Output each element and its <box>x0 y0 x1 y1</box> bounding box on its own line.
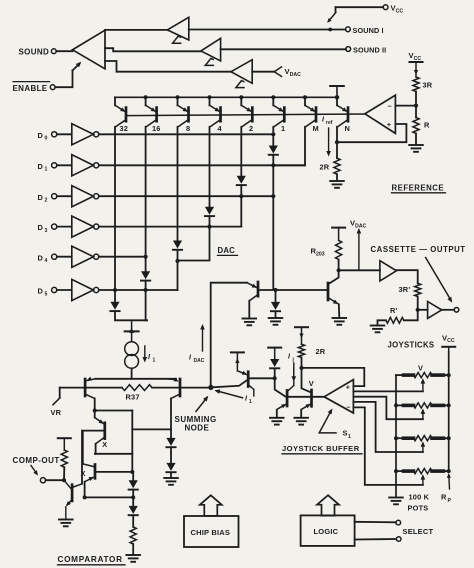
svg-text:2R: 2R <box>316 347 326 356</box>
node D3-diode4 <box>207 225 211 229</box>
svg-text:D: D <box>38 287 44 296</box>
terminal select1 <box>396 520 401 525</box>
svg-text:R: R <box>424 120 430 129</box>
label I1 source <box>148 354 156 364</box>
wire 16line to current source <box>125 322 139 342</box>
svg-text:X: X <box>102 440 107 449</box>
wire node to R <box>415 106 417 118</box>
resistor R-prime <box>386 317 404 323</box>
label JOYSTICK BUFFER <box>282 444 362 454</box>
svg-text:D: D <box>38 253 44 262</box>
wire sound input 1 <box>105 29 167 31</box>
diode joystick <box>270 359 279 378</box>
node rail-4 <box>208 95 212 99</box>
wire Q2 collector drop <box>240 127 242 176</box>
wire amp in2 pot1 <box>353 390 423 392</box>
wire pot rail right <box>448 352 450 471</box>
transistor QL mirror left <box>85 377 95 411</box>
wire diode290 to ground <box>275 311 277 317</box>
svg-text:DAC: DAC <box>218 246 236 255</box>
label SUMMING NODE <box>175 415 217 433</box>
transistor Q-idac mirror <box>247 282 258 318</box>
svg-text:VR: VR <box>51 408 62 417</box>
wire 2-diode to D2 <box>240 185 242 196</box>
ground below R <box>409 145 423 152</box>
wire 8-diode down <box>177 250 179 290</box>
wire 4 below D3 <box>178 227 210 261</box>
transistor Q-compout <box>64 431 82 519</box>
node comparator bus <box>83 495 136 499</box>
wire 2Rnode down <box>302 368 311 392</box>
terminal 2R-j T <box>295 327 308 344</box>
label 4 <box>218 124 223 133</box>
node D5-Q32 <box>113 288 148 292</box>
svg-text:2: 2 <box>249 124 253 133</box>
label VDAC top <box>285 67 302 78</box>
node cassette <box>416 308 420 312</box>
inverter D3 input buffer <box>38 216 99 237</box>
terminal SOUND I <box>346 27 351 32</box>
label JOYSTICKS <box>388 341 435 350</box>
ground below diode stack A <box>164 472 178 484</box>
potentiometer P4 (100K) <box>396 469 449 485</box>
node pot4 right <box>447 469 451 473</box>
wire DAC emitter rail <box>115 96 337 98</box>
label R203 <box>311 247 325 258</box>
label 2R joystick <box>316 347 326 356</box>
node QL collector <box>93 409 97 413</box>
diode stack B1 <box>129 472 138 490</box>
svg-text:CHIP BIAS: CHIP BIAS <box>191 528 231 537</box>
resistor R203 <box>336 240 342 259</box>
wire amp2 out <box>442 309 455 311</box>
wire B2 to resistor <box>132 515 134 527</box>
wire 1-diode to D1 <box>272 155 274 166</box>
wire node to amp2 <box>418 309 428 311</box>
svg-text:S: S <box>343 429 348 438</box>
svg-text:N: N <box>345 124 351 133</box>
label 2 <box>249 124 253 133</box>
resistor comp pullup <box>61 450 67 467</box>
node diode-j <box>273 376 277 380</box>
wire ENABLE <box>55 71 72 88</box>
label Vcc joystick <box>442 333 455 344</box>
potentiometer P1 (100K) <box>396 373 449 392</box>
label R37 <box>126 393 140 402</box>
svg-text:4: 4 <box>45 258 48 264</box>
Iref arrow <box>326 128 331 157</box>
transistor Q3j <box>301 390 312 417</box>
diode on 1 line <box>269 146 278 155</box>
svg-text:COMPARATOR: COMPARATOR <box>58 555 123 564</box>
wire comparator bus <box>85 496 134 498</box>
label Rp <box>441 493 452 504</box>
svg-text:NODE: NODE <box>185 423 210 432</box>
ground comparator <box>126 555 140 562</box>
node rail-M <box>303 95 307 99</box>
wire D3 row <box>99 226 242 228</box>
svg-text:5: 5 <box>45 291 48 297</box>
wire opamp plus feedback <box>337 124 406 142</box>
node rail-right P2 <box>447 403 451 407</box>
svg-text:1: 1 <box>249 399 252 405</box>
wire R203 to node <box>338 259 340 270</box>
transistor Q1 (binary weight 1) <box>273 97 285 127</box>
svg-text:SELECT: SELECT <box>403 527 434 536</box>
wire 32-diode to 16 line <box>115 311 147 320</box>
label 100K POTS <box>408 492 430 512</box>
diode at node290 <box>271 290 280 311</box>
resistor 3R-prime <box>415 283 421 296</box>
wire QM collector <box>273 127 305 166</box>
wire pot rail left <box>395 375 397 496</box>
node D4-diode16 <box>144 255 148 259</box>
svg-text:3R': 3R' <box>399 285 411 294</box>
schmitt mark A1 <box>173 36 181 43</box>
label Ij <box>288 354 295 364</box>
wire bus right <box>152 387 209 389</box>
diode on 32 line <box>110 302 119 311</box>
wire D2 row <box>99 195 273 197</box>
node 2R-j <box>300 366 304 370</box>
wire loop top <box>95 410 133 412</box>
Rp arrow <box>447 473 451 489</box>
wire D5 row <box>99 289 178 291</box>
svg-text:8: 8 <box>186 124 190 133</box>
enable arrow into amp <box>73 60 83 70</box>
box CHIP BIAS <box>184 516 239 547</box>
amp cassette 2 <box>428 302 442 319</box>
potentiometer P2 (100K) <box>396 403 449 419</box>
wire loop right <box>131 411 133 472</box>
logic block arrow <box>317 495 339 516</box>
svg-text:COMP-OUT: COMP-OUT <box>13 456 60 465</box>
wire B1 to bus <box>132 490 134 498</box>
schmitt mark A2 <box>205 58 213 65</box>
label Idac <box>189 355 205 365</box>
resistor 2R joystick <box>298 344 304 357</box>
transistor QM <box>305 97 317 127</box>
VR switch lever <box>53 398 60 405</box>
terminal Q1j emitter <box>231 352 244 370</box>
svg-text:3: 3 <box>45 228 48 234</box>
wire compout to base <box>64 480 72 489</box>
ground Q-compout <box>59 520 73 527</box>
node rail-8 <box>176 95 180 99</box>
wire D4 row <box>99 256 146 258</box>
terminal ENABLE <box>50 85 55 90</box>
label COMP-OUT <box>13 456 60 465</box>
label SOUND <box>19 47 50 56</box>
wire A3 to VDAC <box>252 71 274 73</box>
svg-text:REFERENCE: REFERENCE <box>392 183 445 192</box>
wire A1 to SOUND I <box>189 29 346 31</box>
svg-text:JOYSTICK BUFFER: JOYSTICK BUFFER <box>282 444 360 453</box>
Vcc switch lever <box>326 7 336 24</box>
op-amp U1 reference <box>365 95 396 133</box>
transistor Q2 (binary weight 2) <box>241 97 253 127</box>
I1 node arrow <box>214 388 243 398</box>
terminal Vcc top <box>383 5 388 10</box>
label 16 <box>152 124 161 133</box>
svg-text:R37: R37 <box>126 393 140 402</box>
diode on 8 line <box>173 241 182 250</box>
resistor comparator <box>130 527 136 544</box>
diode on 4 line <box>205 207 214 216</box>
svg-text:2: 2 <box>45 198 48 204</box>
inverter D0 input buffer <box>38 124 99 145</box>
node compout res <box>62 478 66 482</box>
svg-text:D: D <box>38 193 44 202</box>
wire Q16 collector drop <box>145 127 147 271</box>
node rail-left P3 <box>394 436 398 440</box>
ground below Q-cassette <box>333 318 347 325</box>
label N <box>345 124 351 133</box>
svg-text:JOYSTICKS: JOYSTICKS <box>388 341 435 350</box>
svg-text:V: V <box>418 364 423 373</box>
node rail-left P2 <box>394 403 398 407</box>
wire Q8 collector drop <box>177 127 179 240</box>
terminal chipbias T <box>58 438 71 450</box>
inverter D1 input buffer <box>38 155 99 176</box>
svg-text:R': R' <box>390 306 398 315</box>
transistor QR mirror right <box>167 377 181 429</box>
Ij arrow <box>292 363 297 382</box>
wire D0 row <box>99 133 273 135</box>
wire Q1j to diode node <box>248 377 275 379</box>
svg-text:CASSETTE — OUTPUT: CASSETTE — OUTPUT <box>371 245 466 254</box>
wire logic out1 <box>355 521 396 524</box>
wire 3Rp to node <box>417 297 419 310</box>
S1 arrow <box>319 407 336 433</box>
resistor 2R (reference) <box>334 158 340 174</box>
wire res to ground <box>132 544 134 555</box>
label V Q3j <box>309 379 314 388</box>
wire Idac top <box>211 283 247 388</box>
label Vdac mid <box>350 219 367 230</box>
ground R-prime <box>371 326 385 333</box>
wire D1 row <box>99 164 305 166</box>
wire Rp to node <box>404 310 418 321</box>
potentiometer P3 (100K) <box>396 436 449 452</box>
wire link to QXlower <box>83 464 95 467</box>
ground Q3j <box>294 418 308 425</box>
inverter D2 input buffer <box>38 186 99 207</box>
ground pot rail <box>389 498 403 505</box>
terminal SOUND II <box>346 47 351 52</box>
node diode-290 <box>273 288 277 292</box>
wire QR collector junction <box>132 428 171 430</box>
label DAC <box>218 246 238 256</box>
svg-text:ENABLE: ENABLE <box>13 84 48 93</box>
svg-text:SOUND: SOUND <box>19 47 50 56</box>
svg-text:V: V <box>309 379 314 388</box>
transistor Q2j <box>277 368 294 417</box>
node 3R-R <box>414 104 418 108</box>
diode on 16 line <box>141 271 150 280</box>
node D1-diode1 <box>271 163 275 167</box>
transistor Q4 (binary weight 4) <box>210 97 222 127</box>
svg-text:1: 1 <box>45 167 48 173</box>
label V pot <box>418 364 423 373</box>
wire 4-diode to D3 <box>209 216 211 227</box>
wire base join cassette <box>258 289 327 291</box>
svg-text:R: R <box>441 493 447 502</box>
wire Q1 collector drop <box>272 127 274 145</box>
wire QX base left <box>83 431 105 464</box>
Vdac arrow mid <box>357 228 362 270</box>
node D2-diode2 <box>239 194 275 198</box>
wire 3R to node <box>415 92 417 106</box>
svg-text:D: D <box>38 223 44 232</box>
wire 1 below D1 <box>272 165 274 289</box>
wire 2 below D2 <box>240 196 242 226</box>
node rail-right P1 <box>447 373 451 377</box>
svg-text:+: + <box>346 383 350 392</box>
op-amp sound output buffer <box>73 30 106 69</box>
wire summing to Q1j <box>211 380 248 388</box>
label 8 <box>186 124 190 133</box>
label VR <box>51 408 62 417</box>
wire amp in5 pot4 <box>353 407 423 485</box>
diode stack B2 <box>129 497 138 515</box>
inverter A3 <box>231 60 252 84</box>
wire QN collector <box>336 127 338 158</box>
svg-text:0: 0 <box>45 136 48 142</box>
wire diodej down <box>275 378 287 397</box>
terminal cassette out <box>454 308 459 313</box>
wire bus left <box>60 387 122 389</box>
summing arrow <box>196 394 210 411</box>
svg-text:−: − <box>388 104 392 111</box>
wire opamp minus input <box>395 105 416 107</box>
terminal SOUND <box>51 49 56 54</box>
wire R203node to amp <box>339 269 380 271</box>
resistor R37 <box>122 385 152 391</box>
box LOGIC <box>301 515 355 546</box>
diode stack A1 <box>166 429 175 447</box>
transistor QN <box>337 97 349 127</box>
svg-text:D: D <box>38 162 44 171</box>
ground below diode290 <box>269 318 283 325</box>
label Vcc reference <box>409 51 422 62</box>
node 8-4 junction <box>175 259 179 263</box>
wire Q2j-Q3j-amp <box>287 396 324 398</box>
label S1 <box>343 429 352 440</box>
wire compout <box>46 479 64 481</box>
terminal Vcc 3R <box>410 62 423 77</box>
wire A2 to SOUND II <box>221 48 346 50</box>
label I1 node <box>245 396 252 406</box>
label 3R <box>423 80 433 89</box>
svg-text:ref: ref <box>326 120 333 126</box>
label 1 <box>281 124 285 133</box>
svg-text:D: D <box>38 131 44 140</box>
wire amp in3 pot2 <box>353 397 423 420</box>
inverter A2 <box>201 38 221 61</box>
svg-text:32: 32 <box>120 124 129 133</box>
wire R-prime <box>378 320 386 325</box>
wire amp in4 pot3 <box>353 402 423 452</box>
svg-text:100 K: 100 K <box>409 492 430 501</box>
node rail-left P4 <box>394 469 398 473</box>
transistor Q32 (binary weight 32) <box>115 97 127 127</box>
terminal select2 <box>396 537 401 542</box>
transistor QX upper <box>95 411 105 454</box>
amp joystick buffer S1 <box>324 380 353 413</box>
label CASSETTE OUTPUT <box>371 245 466 254</box>
label SELECT <box>403 527 434 536</box>
label SOUND II <box>353 46 386 55</box>
wire loop bottom <box>95 453 132 455</box>
label R <box>424 120 430 129</box>
svg-text:4: 4 <box>218 124 223 133</box>
cassette arrow <box>426 258 455 304</box>
svg-text:SOUND I: SOUND I <box>353 26 384 35</box>
I1 arrow <box>143 346 148 363</box>
label COMPARATOR <box>58 555 126 565</box>
inverter A1 <box>167 17 189 40</box>
transistor Q8 (binary weight 8) <box>178 97 190 127</box>
svg-text:POTS: POTS <box>408 504 429 513</box>
wire source to emitters <box>131 368 133 379</box>
wire R to ground <box>415 134 417 145</box>
node summing <box>208 385 213 390</box>
wire Vcc to switch <box>336 6 384 8</box>
svg-text:DAC: DAC <box>194 358 205 364</box>
terminal diode-j T <box>268 348 281 359</box>
svg-text:SOUND II: SOUND II <box>353 46 386 55</box>
transistor Q1j <box>237 371 253 396</box>
node R203 <box>337 268 341 272</box>
wire SOUND to amp <box>56 50 72 52</box>
chip bias block arrow <box>200 495 222 516</box>
svg-text:−: − <box>346 405 350 412</box>
terminal R203 top <box>332 228 345 241</box>
svg-text:LOGIC: LOGIC <box>314 527 339 536</box>
node QXl base <box>130 470 134 474</box>
Idac arrow <box>200 324 205 351</box>
wire sound input 2 <box>105 48 201 51</box>
node switch-SOUND I <box>328 28 332 32</box>
svg-text:1: 1 <box>281 124 285 133</box>
node D0-Q1 <box>271 132 275 136</box>
wire amp1 to 3Rp <box>396 270 417 283</box>
inverter D5 input buffer <box>38 279 99 300</box>
amp cassette 1 <box>380 261 397 281</box>
ground below 2R ref <box>330 181 344 188</box>
svg-text:P: P <box>448 498 452 504</box>
terminal Vcc joystick <box>442 347 455 352</box>
svg-text:1: 1 <box>153 358 156 364</box>
svg-text:16: 16 <box>152 124 161 133</box>
label X lower <box>81 469 86 478</box>
svg-text:M: M <box>313 124 319 133</box>
schmitt mark A3 <box>236 81 244 88</box>
terminal rail supply <box>330 86 344 100</box>
node rail-16 <box>144 95 148 99</box>
wire pullup to node <box>63 467 65 480</box>
label REFERENCE <box>392 183 446 193</box>
label ENABLE (overlined) <box>13 82 50 93</box>
resistor R <box>413 118 419 134</box>
wire 16-diode down <box>146 281 147 321</box>
transistor Q16 (binary weight 16) <box>146 97 158 127</box>
node rail-1 <box>271 95 275 99</box>
wire DAC base line <box>126 114 365 116</box>
wire VR to bus <box>59 388 61 398</box>
wire emitter link <box>96 378 177 380</box>
